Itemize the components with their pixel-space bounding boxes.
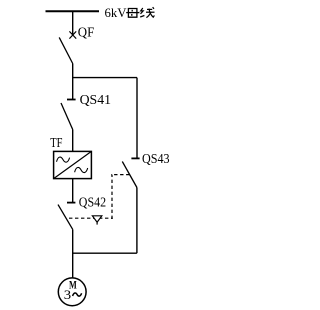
- svg-text:3: 3: [64, 287, 71, 302]
- svg-text:QS42: QS42: [79, 194, 106, 209]
- svg-text:QS43: QS43: [142, 151, 170, 166]
- svg-text:QF: QF: [78, 24, 95, 39]
- svg-text:6kV: 6kV: [105, 5, 128, 20]
- svg-text:TF: TF: [50, 135, 63, 150]
- svg-text:QS41: QS41: [80, 92, 111, 107]
